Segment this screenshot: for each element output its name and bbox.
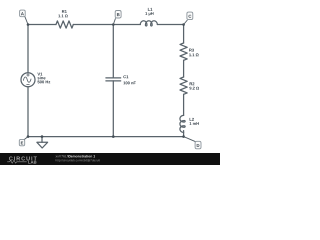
- junction dot ground: [41, 135, 44, 138]
- node D flag leader: [184, 137, 196, 142]
- label C1: [123, 75, 128, 78]
- wire bottom rail: [28, 136, 184, 138]
- node E flag box: [19, 139, 24, 145]
- label R1 value: [58, 15, 67, 18]
- junction dot node E: [27, 135, 30, 138]
- ground stub: [41, 137, 43, 143]
- wire top rail A to R1: [28, 24, 56, 26]
- junction dot node D: [182, 135, 185, 138]
- wire V1 to node A corner: [27, 25, 29, 73]
- label R2: [190, 82, 195, 85]
- label V1 type: [38, 76, 46, 79]
- wire left rail E corner to V1: [27, 87, 29, 137]
- junction dot node A: [27, 23, 30, 26]
- logo zigzag: [7, 160, 27, 163]
- wire R1 to node B: [73, 24, 113, 26]
- node D letter: [197, 144, 200, 147]
- wire node B down to C1: [112, 25, 114, 78]
- resistor R3: [180, 43, 187, 60]
- node E flag leader: [24, 137, 28, 140]
- node E letter: [21, 141, 23, 144]
- watermark title: [69, 155, 96, 157]
- resistor R2: [180, 77, 187, 94]
- label C1 value: [123, 82, 135, 85]
- junction dot node C: [182, 23, 185, 26]
- label L1: [148, 8, 152, 11]
- label R1: [62, 10, 67, 13]
- node C flag box: [187, 12, 193, 20]
- label V1: [37, 73, 42, 76]
- watermark url: [56, 159, 100, 162]
- inductor L2: [180, 115, 185, 132]
- node D flag box: [195, 141, 201, 149]
- inductor L1: [140, 21, 157, 26]
- label V1 freq: [38, 80, 51, 83]
- node A letter: [21, 12, 24, 15]
- label L2 value: [190, 122, 199, 125]
- label R3: [189, 49, 194, 52]
- logo CIRCUIT: [9, 156, 37, 160]
- node C letter: [189, 15, 192, 18]
- resistor R1: [56, 21, 73, 28]
- V1 sine and polarity marks: [23, 74, 31, 85]
- wire R2 to L2: [183, 94, 185, 115]
- node B flag box: [115, 11, 121, 19]
- wire right rail C to R3: [183, 25, 185, 44]
- logo LAB: [28, 161, 36, 164]
- voltage source V1 circle: [21, 73, 35, 87]
- label R2 value: [189, 87, 199, 90]
- watermark bar: [0, 153, 220, 165]
- node B flag leader: [113, 18, 115, 24]
- node B letter: [117, 13, 120, 16]
- node A flag box: [20, 10, 26, 17]
- label L1 value: [145, 12, 153, 16]
- wire C1 to bottom rail: [112, 81, 114, 137]
- wire R3 to R2: [183, 60, 185, 77]
- wire node B to L1: [113, 24, 140, 26]
- capacitor C1 plates: [106, 78, 121, 81]
- watermark id: [56, 155, 71, 157]
- label R3 value: [189, 53, 198, 56]
- label L2: [190, 118, 194, 121]
- node A flag leader: [25, 16, 28, 24]
- junction dot C1 bottom: [112, 135, 115, 138]
- node C flag leader: [184, 20, 188, 25]
- wire L1 to node C: [158, 24, 184, 26]
- ground triangle: [37, 142, 48, 148]
- wire L2 to bottom rail: [183, 131, 185, 137]
- junction dot node B: [112, 23, 115, 26]
